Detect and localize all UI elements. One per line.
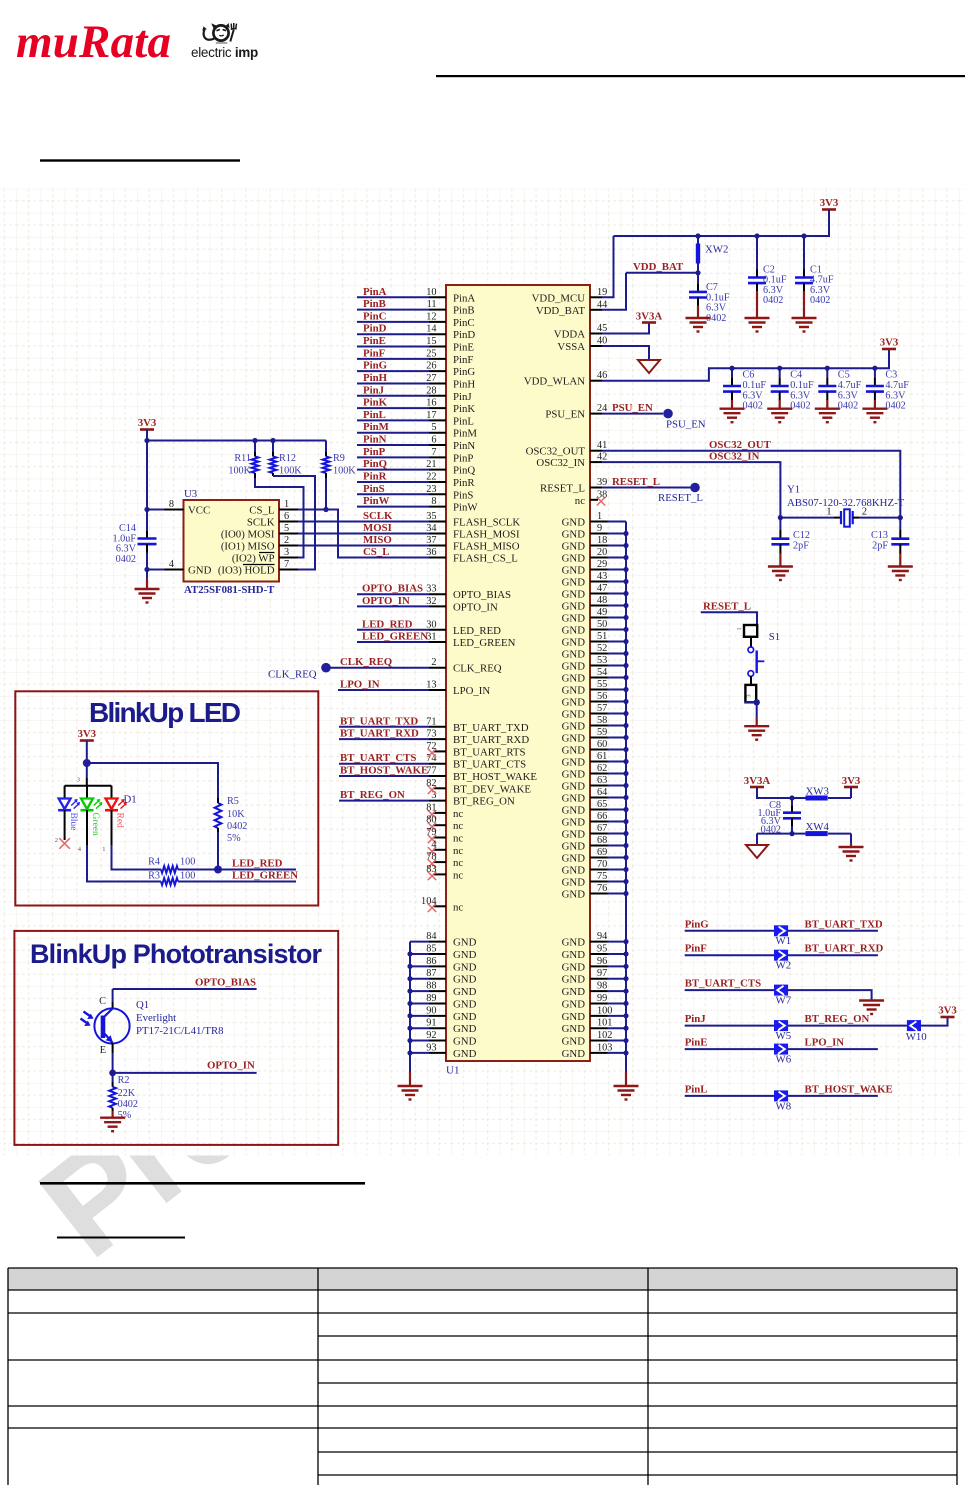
svg-text:PinG: PinG [685, 918, 710, 930]
svg-text:62: 62 [597, 763, 607, 774]
svg-text:32: 32 [426, 596, 436, 607]
U1 pin 43 GND [562, 571, 626, 589]
svg-text:59: 59 [597, 727, 607, 738]
svg-text:MOSI: MOSI [363, 522, 392, 534]
svg-text:79: 79 [426, 827, 436, 838]
svg-text:OPTO_BIAS: OPTO_BIAS [195, 977, 256, 989]
svg-text:VDD_MCU: VDD_MCU [532, 292, 586, 304]
svg-text:GND: GND [562, 1023, 586, 1035]
svg-text:BT_HOST_WAKE: BT_HOST_WAKE [453, 771, 537, 783]
svg-text:27: 27 [426, 373, 436, 384]
U1 pin 78 nc [426, 852, 463, 870]
svg-text:68: 68 [597, 835, 607, 846]
U1 pin 76 GND [562, 883, 626, 901]
svg-text:RESET_L: RESET_L [612, 476, 660, 488]
BlinkUp LED group box [15, 691, 318, 905]
junction [623, 675, 628, 680]
junction [407, 1013, 412, 1018]
ground C14 [146, 579, 148, 589]
svg-text:LPO_IN: LPO_IN [340, 679, 380, 691]
junction [407, 976, 412, 981]
svg-text:77: 77 [426, 766, 436, 777]
svg-text:93: 93 [426, 1042, 436, 1053]
svg-text:GND: GND [562, 986, 586, 998]
junction [407, 988, 412, 993]
junction [407, 1001, 412, 1006]
svg-text:(IO2) WP: (IO2) WP [232, 553, 275, 565]
svg-text:GND: GND [562, 998, 586, 1010]
svg-text:LED_RED: LED_RED [453, 625, 501, 637]
svg-text:PinS: PinS [453, 489, 473, 501]
junction [623, 567, 628, 572]
svg-text:PinC: PinC [363, 310, 386, 322]
wire 3V3 stem [850, 787, 852, 798]
junction [623, 855, 628, 860]
svg-text:3V3: 3V3 [842, 775, 861, 787]
svg-text:2pF: 2pF [872, 540, 888, 551]
svg-text:(IO3) HOLD: (IO3) HOLD [218, 565, 275, 577]
U1 pin 94 GND [562, 931, 626, 949]
svg-text:10K: 10K [227, 809, 245, 820]
svg-text:PinL: PinL [363, 409, 386, 421]
svg-text:Everlight: Everlight [136, 1012, 176, 1024]
power 3V3 top [822, 208, 836, 211]
U1 pin 40 VSSA [557, 336, 649, 361]
U1 pin 93 GND [410, 1042, 477, 1060]
junction [623, 735, 628, 740]
svg-text:84: 84 [426, 931, 436, 942]
LED D1 blue element [55, 786, 79, 844]
U1 pin 30 LED_RED [357, 618, 501, 637]
wire to R5 [87, 763, 218, 798]
svg-text:25: 25 [426, 348, 436, 359]
junction [623, 627, 628, 632]
svg-text:89: 89 [426, 993, 436, 1004]
svg-text:nc: nc [453, 901, 463, 913]
svg-text:48: 48 [597, 595, 607, 606]
svg-text:42: 42 [597, 452, 607, 463]
svg-text:7: 7 [431, 447, 436, 458]
svg-text:PinD: PinD [363, 323, 387, 335]
svg-text:GND: GND [562, 637, 586, 649]
svg-text:39: 39 [597, 477, 607, 488]
junction [623, 1038, 628, 1043]
U1 pin 97 GND [562, 968, 626, 986]
svg-text:GND: GND [562, 1048, 586, 1060]
svg-text:87: 87 [426, 968, 436, 979]
ground right bus [625, 1072, 627, 1086]
junction [898, 515, 903, 520]
svg-text:muRata: muRata [16, 16, 171, 68]
svg-text:ABS07-120-32.768KHZ-T: ABS07-120-32.768KHZ-T [787, 497, 905, 509]
svg-text:PinB: PinB [363, 298, 386, 310]
svg-text:LED_RED: LED_RED [232, 858, 283, 870]
svg-text:BT_UART_RXD: BT_UART_RXD [340, 728, 419, 740]
U1 pin 96 GND [562, 956, 626, 974]
power 3V3A at VDDA [642, 321, 656, 324]
resistor R4 100 [148, 857, 195, 873]
svg-text:28: 28 [426, 385, 436, 396]
junction [623, 1026, 628, 1031]
svg-text:BT_UART_TXD: BT_UART_TXD [453, 722, 529, 734]
svg-text:Green: Green [90, 813, 100, 836]
svg-text:U3: U3 [184, 488, 197, 500]
svg-text:SCLK: SCLK [363, 510, 393, 522]
jumper XW2 [696, 236, 729, 273]
capacitor C12 2pF [771, 518, 810, 567]
svg-text:75: 75 [597, 871, 607, 882]
svg-text:37: 37 [426, 535, 436, 546]
svg-text:CS_L: CS_L [363, 546, 389, 558]
svg-text:61: 61 [597, 751, 607, 762]
U1 pin 100 GND [562, 1005, 626, 1023]
svg-text:PinJ: PinJ [453, 391, 472, 403]
svg-text:GND: GND [453, 949, 477, 961]
svg-text:43: 43 [597, 571, 607, 582]
svg-text:PinL: PinL [685, 1083, 708, 1095]
wire 3V3 top bus [614, 210, 830, 237]
junction [144, 438, 149, 443]
IC U3 body [184, 500, 280, 582]
junction [623, 591, 628, 596]
svg-text:69: 69 [597, 847, 607, 858]
svg-text:OSC32_IN: OSC32_IN [536, 457, 585, 469]
svg-text:(IO0) MOSI: (IO0) MOSI [221, 529, 275, 541]
no-connect X blue LED cathode [59, 838, 70, 849]
svg-text:PinH: PinH [453, 378, 475, 390]
U1 pin 48 GND [562, 595, 626, 613]
BlinkUp Phototransistor group box [14, 931, 338, 1145]
svg-text:BT_UART_TXD: BT_UART_TXD [340, 715, 418, 727]
resistor R11 100K [228, 441, 258, 479]
U1 pin 6 PinN [357, 434, 475, 453]
svg-text:R5: R5 [227, 796, 239, 807]
capacitor C5 4.7uF [818, 368, 861, 411]
junction [623, 976, 628, 981]
junction [270, 438, 275, 443]
junction [407, 964, 412, 969]
U1 pin 36 FLASH_CS_L [363, 546, 518, 565]
svg-text:0402: 0402 [227, 821, 247, 832]
junction [623, 867, 628, 872]
wire HOLD to R12 [273, 476, 315, 570]
svg-text:22K: 22K [118, 1088, 136, 1099]
svg-text:OSC32_OUT: OSC32_OUT [709, 439, 772, 451]
svg-text:83: 83 [426, 864, 436, 875]
svg-text:R12: R12 [279, 453, 296, 464]
U1 pin 21 PinQ [357, 458, 475, 477]
junction [623, 723, 628, 728]
svg-text:VSSA: VSSA [557, 341, 585, 353]
jumper W10 BT_REG_ON to 3V3 [906, 1017, 948, 1043]
U1 pin 23 PinS [357, 483, 473, 502]
U1 pin 83 nc [426, 864, 463, 882]
U1 pin 54 GND [562, 667, 626, 685]
svg-text:29: 29 [597, 559, 607, 570]
svg-text:36: 36 [426, 547, 436, 558]
svg-text:W6: W6 [776, 1054, 792, 1066]
svg-text:CLK_REQ: CLK_REQ [268, 669, 317, 681]
wire LED_RED row [178, 869, 296, 871]
svg-text:45: 45 [597, 323, 607, 334]
junction [407, 1026, 412, 1031]
svg-text:nc: nc [453, 833, 463, 845]
svg-text:W2: W2 [776, 960, 792, 972]
junction [407, 1050, 412, 1055]
U1 pin 73 BT_UART_RXD [339, 728, 529, 747]
svg-text:66: 66 [597, 811, 607, 822]
capacitor C13 2pF [871, 518, 909, 567]
svg-text:2pF: 2pF [793, 540, 809, 551]
svg-text:BT_UART_CTS: BT_UART_CTS [453, 759, 526, 771]
junction [623, 939, 628, 944]
svg-text:PinQ: PinQ [363, 458, 387, 470]
svg-text:BT_DEV_WAKE: BT_DEV_WAKE [453, 783, 531, 795]
svg-text:BlinkUp LED: BlinkUp LED [89, 697, 241, 728]
svg-text:GND: GND [562, 781, 586, 793]
capacitor C6 0.1uF [723, 368, 766, 411]
U1 pin 26 PinG [357, 360, 475, 379]
svg-text:90: 90 [426, 1005, 436, 1016]
svg-text:GND: GND [562, 769, 586, 781]
ground C3 [862, 408, 887, 410]
junction [623, 807, 628, 812]
junction [695, 270, 700, 275]
U1 pin 56 GND [562, 691, 626, 709]
U1 pin 5 PinM [357, 421, 477, 440]
ground right of XW4 [850, 843, 852, 847]
svg-text:98: 98 [597, 981, 607, 992]
U1 pin 88 GND [410, 981, 477, 999]
svg-text:Blue: Blue [68, 813, 78, 831]
LED D1 green element [78, 786, 102, 853]
svg-text:BT_HOST_WAKE: BT_HOST_WAKE [340, 765, 428, 777]
svg-text:GND: GND [453, 1011, 477, 1023]
svg-text:OPTO_IN: OPTO_IN [362, 595, 410, 607]
svg-text:100K: 100K [279, 465, 302, 476]
U1 pin 89 GND [410, 993, 477, 1011]
svg-text:1: 1 [736, 627, 743, 630]
U1 pin 57 GND [562, 703, 626, 721]
svg-text:18: 18 [597, 535, 607, 546]
resistor R3 100 [148, 871, 195, 885]
svg-text:3V3: 3V3 [880, 337, 899, 349]
svg-text:PinA: PinA [363, 286, 387, 298]
ground C6 [720, 408, 745, 410]
svg-text:W7: W7 [776, 995, 792, 1007]
svg-text:nc: nc [453, 845, 463, 857]
junction [789, 795, 794, 800]
power 3V3 at W10 [941, 1016, 955, 1019]
svg-text:PinM: PinM [363, 421, 389, 433]
U1 pin 68 GND [562, 835, 626, 853]
svg-text:nc: nc [453, 869, 463, 881]
svg-text:PinR: PinR [453, 477, 475, 489]
svg-text:BT_UART_RXD: BT_UART_RXD [453, 734, 529, 746]
svg-text:57: 57 [597, 703, 607, 714]
svg-text:78: 78 [426, 852, 436, 863]
svg-text:3V3A: 3V3A [744, 775, 771, 787]
ground C7 [686, 317, 711, 319]
svg-text:GND: GND [562, 757, 586, 769]
svg-text:FLASH_CS_L: FLASH_CS_L [453, 553, 518, 565]
junction [754, 699, 760, 705]
capacitor C7 0.1uF [689, 273, 730, 324]
power 3V3A filter [750, 786, 764, 789]
svg-text:3V3: 3V3 [77, 728, 96, 740]
svg-text:GND: GND [562, 589, 586, 601]
svg-text:33: 33 [426, 584, 436, 595]
wire 3V3 to pull-up bus [146, 430, 148, 441]
svg-text:96: 96 [597, 956, 607, 967]
svg-text:8: 8 [169, 499, 174, 510]
svg-text:GND: GND [562, 961, 586, 973]
U3 pin 2 MISO [221, 535, 298, 553]
wire U3 MOSI to U1 [298, 533, 429, 535]
svg-text:103: 103 [597, 1042, 612, 1053]
U1 pin 63 GND [562, 775, 626, 793]
resistor R5 10K [215, 796, 248, 870]
svg-text:60: 60 [597, 739, 607, 750]
svg-text:20: 20 [597, 547, 607, 558]
svg-text:GND: GND [562, 529, 586, 541]
svg-text:102: 102 [597, 1030, 612, 1041]
svg-text:Q1: Q1 [136, 999, 149, 1011]
svg-text:22: 22 [426, 471, 436, 482]
svg-text:3V3A: 3V3A [636, 311, 663, 323]
U1 pin 72 nc [426, 741, 525, 759]
U1 pin 70 GND [562, 859, 626, 877]
U1 pin 9 GND [562, 523, 626, 541]
U1 pin 52 GND [562, 643, 626, 661]
U1 pin 12 PinC [357, 310, 475, 329]
U1 pin 32 OPTO_IN [357, 595, 498, 614]
svg-text:GND: GND [453, 961, 477, 973]
U3 pin 1 CS_L [249, 499, 298, 517]
junction [623, 699, 628, 704]
svg-text:82: 82 [426, 778, 436, 789]
svg-text:FLASH_MOSI: FLASH_MOSI [453, 529, 520, 541]
U1 pin 11 PinB [357, 298, 475, 317]
svg-text:GND: GND [562, 613, 586, 625]
svg-text:E: E [100, 1045, 106, 1056]
U1 pin 81 nc [426, 802, 463, 820]
svg-text:0402: 0402 [763, 295, 783, 306]
svg-text:BT_UART_TXD: BT_UART_TXD [805, 918, 883, 930]
U1 pin 77 BT_HOST_WAKE [339, 765, 537, 784]
svg-text:97: 97 [597, 968, 607, 979]
U1 pin 79 nc [426, 827, 463, 845]
svg-text:PinA: PinA [453, 292, 475, 304]
svg-text:21: 21 [426, 459, 436, 470]
svg-text:GND: GND [562, 829, 586, 841]
wire pull-up bus [147, 440, 326, 442]
svg-text:GND: GND [562, 685, 586, 697]
wire right GND bus [625, 522, 627, 1073]
wire OPTO_BIAS [113, 988, 257, 990]
svg-text:GND: GND [562, 877, 586, 889]
junction [777, 366, 782, 371]
U1 pin 34 FLASH_MOSI [363, 522, 520, 541]
svg-text:88: 88 [426, 981, 436, 992]
svg-text:GND: GND [562, 541, 586, 553]
junction [144, 507, 149, 512]
svg-text:PinE: PinE [453, 342, 474, 354]
U1 pin 87 GND [410, 968, 477, 986]
jumper W7 BT_UART_CTS to ground [685, 978, 872, 1007]
svg-text:13: 13 [426, 680, 436, 691]
svg-text:PinG: PinG [453, 366, 475, 378]
wire 3V3 to LED anodes [86, 741, 88, 764]
LED D1 red element [102, 786, 126, 853]
svg-text:99: 99 [597, 993, 607, 1004]
junction [801, 233, 806, 238]
svg-text:BT_HOST_WAKE: BT_HOST_WAKE [805, 1083, 893, 1095]
capacitor C14 1.0uF [113, 441, 157, 579]
junction [623, 771, 628, 776]
junction [623, 759, 628, 764]
U1 pin 59 GND [562, 727, 626, 745]
svg-text:GND: GND [562, 793, 586, 805]
junction [623, 1050, 628, 1055]
U1 pin 75 GND [562, 871, 626, 889]
svg-text:100K: 100K [333, 465, 356, 476]
svg-text:PSU_EN: PSU_EN [666, 419, 706, 431]
svg-text:PinK: PinK [363, 397, 388, 409]
svg-text:95: 95 [597, 943, 607, 954]
svg-text:LPO_IN: LPO_IN [805, 1037, 845, 1049]
svg-text:Y1: Y1 [787, 484, 800, 496]
resistor R9 100K [323, 441, 357, 510]
svg-text:GND: GND [562, 974, 586, 986]
wire to ground right [850, 834, 852, 843]
svg-text:R2: R2 [118, 1075, 130, 1086]
svg-text:81: 81 [426, 802, 436, 813]
junction [623, 543, 628, 548]
svg-text:104: 104 [421, 896, 436, 907]
U1 pin 2 CLK_REQ with junction dot [321, 656, 502, 675]
U1 pin 31 LED_GREEN [357, 631, 516, 650]
svg-text:47: 47 [597, 583, 607, 594]
junction [214, 866, 222, 874]
svg-text:nc: nc [453, 820, 463, 832]
svg-text:PT17-21C/L41/TR8: PT17-21C/L41/TR8 [136, 1025, 224, 1037]
svg-text:0402: 0402 [743, 401, 763, 412]
wire LED_GREEN row [178, 881, 296, 883]
svg-text:2: 2 [284, 535, 289, 546]
svg-text:OPTO_BIAS: OPTO_BIAS [453, 589, 511, 601]
svg-text:101: 101 [597, 1018, 612, 1029]
svg-text:91: 91 [426, 1018, 436, 1029]
U1 pin 101 GND [562, 1018, 626, 1036]
U1 pin 66 GND [562, 811, 626, 829]
svg-text:VDD_WLAN: VDD_WLAN [524, 376, 585, 388]
U1 pin 33 OPTO_BIAS [357, 583, 511, 602]
svg-text:76: 76 [597, 883, 607, 894]
U1 pin 22 PinR [357, 470, 475, 489]
wire OPTO_IN [113, 1072, 257, 1074]
U1 pin 39 RESET_L [540, 476, 700, 495]
junction [789, 831, 794, 836]
svg-text:PinK: PinK [453, 403, 475, 415]
svg-text:PinH: PinH [363, 372, 388, 384]
ground C5 [815, 408, 840, 410]
svg-text:GND: GND [453, 998, 477, 1010]
svg-text:GND: GND [562, 745, 586, 757]
junction [623, 579, 628, 584]
junction [623, 639, 628, 644]
U1 pin 24 PSU_EN [545, 402, 672, 421]
